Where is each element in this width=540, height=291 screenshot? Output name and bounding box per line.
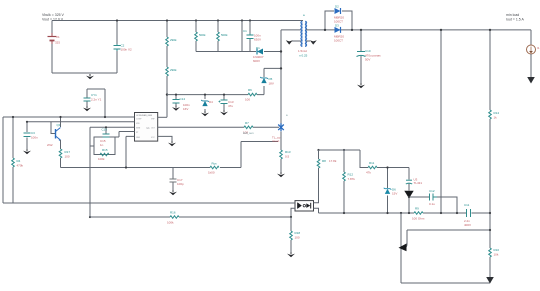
bus A y=117 <box>3 116 135 118</box>
vertical x401 with diode <box>400 213 402 283</box>
diode loop <box>325 11 352 30</box>
vertical x318.5 with R8 <box>318 150 320 199</box>
source V1 <box>48 33 57 44</box>
coil TX1 <box>301 21 307 47</box>
capacitor C17 <box>170 168 185 191</box>
svg-text:R8: R8 <box>322 159 326 163</box>
svg-text:1n: 1n <box>100 143 104 147</box>
capacitor C2 <box>114 44 121 51</box>
cap C14 to gnd <box>175 95 177 106</box>
svg-text:1k0_sen: 1k0_sen <box>243 131 254 135</box>
bottom wire <box>401 282 490 284</box>
vertical x344 with R12 <box>343 150 345 213</box>
resistor R15 on box bottom <box>100 153 109 156</box>
wire top main <box>52 20 303 22</box>
zener D5 <box>260 77 268 83</box>
wire <box>166 21 168 118</box>
resistor R14 <box>489 110 492 119</box>
svg-text:100k: 100k <box>98 157 105 161</box>
svg-text:2.2n Y1: 2.2n Y1 <box>91 98 102 102</box>
svg-text:7.87k: 7.87k <box>348 177 356 181</box>
wire <box>196 21 218 52</box>
zener D4 to gnd <box>204 95 206 111</box>
diode D2 <box>335 8 341 14</box>
zener chain D5 <box>264 68 281 94</box>
current source I1 <box>530 30 532 45</box>
svg-text:47k: 47k <box>366 171 371 175</box>
primary side arrow <box>286 39 293 45</box>
svg-text:100k: 100k <box>167 221 174 225</box>
svg-text:2N2: 2N2 <box>47 143 53 147</box>
svg-text:TL431: TL431 <box>414 181 423 185</box>
svg-text:630V: 630V <box>254 38 261 42</box>
svg-text:R11: R11 <box>369 161 375 165</box>
svg-text:R7: R7 <box>245 121 249 125</box>
svg-text:n 0.25: n 0.25 <box>299 54 308 58</box>
wire branch with arrow terminator <box>405 230 408 248</box>
left outer vertical <box>2 117 4 203</box>
capacitor C1 <box>249 21 251 52</box>
svg-text:min load: min load <box>506 13 519 17</box>
svg-text:290k: 290k <box>170 68 177 72</box>
vertical x441 <box>440 30 442 213</box>
svg-text:470k: 470k <box>17 164 24 168</box>
svg-text:ISEN: ISEN <box>136 128 141 130</box>
svg-text:0.5: 0.5 <box>285 155 290 159</box>
resistor R10 <box>489 248 492 257</box>
resistor R1 <box>166 37 169 46</box>
svg-text:100n X2: 100n X2 <box>121 48 133 52</box>
svg-text:Rcs: Rcs <box>212 162 218 166</box>
R4 chain x=13 <box>12 117 14 203</box>
cap C10 to gnd <box>360 30 362 83</box>
diode D3 <box>335 27 341 33</box>
svg-text:16V: 16V <box>183 107 188 111</box>
transistor M1 (switch symbol) <box>278 123 284 131</box>
svg-text:500k: 500k <box>199 33 206 37</box>
svg-text:290k: 290k <box>170 38 177 42</box>
vertical x490 with R14 <box>489 30 491 283</box>
svg-text:R15: R15 <box>102 148 108 152</box>
cap C16 <box>105 127 107 134</box>
resistor R13 <box>280 150 291 159</box>
pin VCC gnd <box>158 136 172 141</box>
svg-text:1k00: 1k00 <box>208 171 215 175</box>
svg-text:D5: D5 <box>269 77 273 81</box>
svg-text:R18: R18 <box>295 231 301 235</box>
svg-text:D2: D2 <box>335 5 339 9</box>
wire vertical x242 <box>241 21 243 52</box>
pin VRF stub <box>158 116 167 118</box>
svg-text:D3: D3 <box>335 24 339 28</box>
bus B y=121.8 <box>27 121 135 123</box>
diode D1 <box>257 49 263 55</box>
svg-text:100: 100 <box>65 155 70 159</box>
svg-text:C11: C11 <box>464 203 470 207</box>
svg-text:100p: 100p <box>177 182 184 186</box>
svg-text:47u: 47u <box>228 104 233 108</box>
svg-text:50V: 50V <box>365 58 370 62</box>
svg-text:600V: 600V <box>253 59 260 63</box>
svg-text:100CT: 100CT <box>334 39 343 43</box>
wire input bottom <box>52 72 117 74</box>
svg-text:CY1: CY1 <box>91 93 97 97</box>
svg-text:100: 100 <box>295 236 300 240</box>
svg-text:R10: R10 <box>494 248 500 252</box>
svg-text:15V: 15V <box>392 192 397 196</box>
comp loop <box>409 197 457 213</box>
svg-text:17.8k: 17.8k <box>329 159 337 163</box>
resistor R5b <box>217 32 220 41</box>
svg-text:C10: C10 <box>365 49 371 53</box>
svg-text:I1: I1 <box>537 46 540 50</box>
svg-text:C1: C1 <box>243 29 247 33</box>
svg-text:Iout = 1.5 A: Iout = 1.5 A <box>506 18 524 22</box>
svg-text:R16: R16 <box>170 211 176 215</box>
wire M1 source leg <box>280 132 282 173</box>
svg-text:R17: R17 <box>65 150 71 154</box>
C3 chain x=27 <box>26 122 28 149</box>
wire to R11 <box>360 150 409 168</box>
svg-text:R6: R6 <box>248 88 252 92</box>
wire input left vertical <box>51 21 53 74</box>
svg-text:100n: 100n <box>31 136 38 140</box>
svg-text:V1: V1 <box>56 35 60 39</box>
svg-text:C3: C3 <box>31 131 35 135</box>
svg-text:R9: R9 <box>415 207 419 211</box>
wire right vertical <box>116 21 118 74</box>
svg-text:D4: D4 <box>209 100 213 104</box>
svg-text:COMP: COMP <box>136 119 142 121</box>
secondary side arrow <box>310 39 317 45</box>
loop y=230 <box>407 229 490 231</box>
svg-text:100 Ohm: 100 Ohm <box>412 217 425 221</box>
svg-text:GND: GND <box>136 137 141 139</box>
svg-text:400V: 400V <box>464 223 471 227</box>
svg-text:500k: 500k <box>221 33 228 37</box>
CY loop top-left <box>87 89 105 117</box>
svg-text:R4: R4 <box>17 159 21 163</box>
resistor Rcs <box>208 162 219 175</box>
ground <box>277 172 285 177</box>
opto sense resistor chain <box>290 217 292 252</box>
svg-text:Q1: Q1 <box>57 123 61 127</box>
svg-text:R14: R14 <box>494 111 500 115</box>
svg-text:C14: C14 <box>180 97 186 101</box>
svg-text:100: 100 <box>245 98 250 102</box>
resistor R5 <box>195 32 198 41</box>
wire sense riser to MOSFET source node <box>241 142 278 168</box>
node junction pin5 net <box>125 166 127 168</box>
svg-text:325: 325 <box>55 41 60 45</box>
resistor R6 <box>248 93 257 96</box>
bus y=203 <box>3 202 295 204</box>
svg-text:1k: 1k <box>494 116 498 120</box>
node junction <box>166 93 168 95</box>
opto left pins <box>291 203 295 217</box>
fb top rail <box>319 149 361 151</box>
zener D6 <box>387 168 389 214</box>
svg-text:UC3842AN_GEN: UC3842AN_GEN <box>136 114 153 117</box>
svg-text:0.1u: 0.1u <box>429 202 435 206</box>
value label M1 <box>272 136 281 143</box>
TL431 U3 <box>408 168 410 214</box>
bus y=217 <box>90 216 291 218</box>
wire current-sense rail <box>61 167 242 169</box>
svg-text:C12: C12 <box>429 189 435 193</box>
svg-text:1.5mH: 1.5mH <box>298 49 307 53</box>
svg-text:10k: 10k <box>494 253 499 257</box>
junction dots aux rail <box>175 94 177 96</box>
node arrow terminator <box>399 244 407 252</box>
svg-text:R13: R13 <box>285 150 291 154</box>
pin4 jog <box>115 132 135 138</box>
series cap C11 <box>467 209 471 217</box>
resistor R2 <box>166 67 169 76</box>
svg-text:nnect: nnect <box>272 139 280 143</box>
pin OUT long wire <box>158 126 279 128</box>
opto right pins <box>314 199 319 213</box>
cap C13 to gnd <box>223 95 225 110</box>
wire bottom rail of snubber <box>196 51 256 53</box>
svg-text:D1: D1 <box>256 46 260 50</box>
svg-text:18V: 18V <box>269 82 274 86</box>
ground <box>86 74 94 79</box>
wire primary bottom <box>281 29 301 31</box>
svg-text:Vbulk = 325 V: Vbulk = 325 V <box>42 13 65 17</box>
svg-text:R12: R12 <box>348 173 354 177</box>
ground <box>169 190 177 195</box>
pin5 wire <box>126 136 135 167</box>
resistor R7 <box>244 126 253 129</box>
